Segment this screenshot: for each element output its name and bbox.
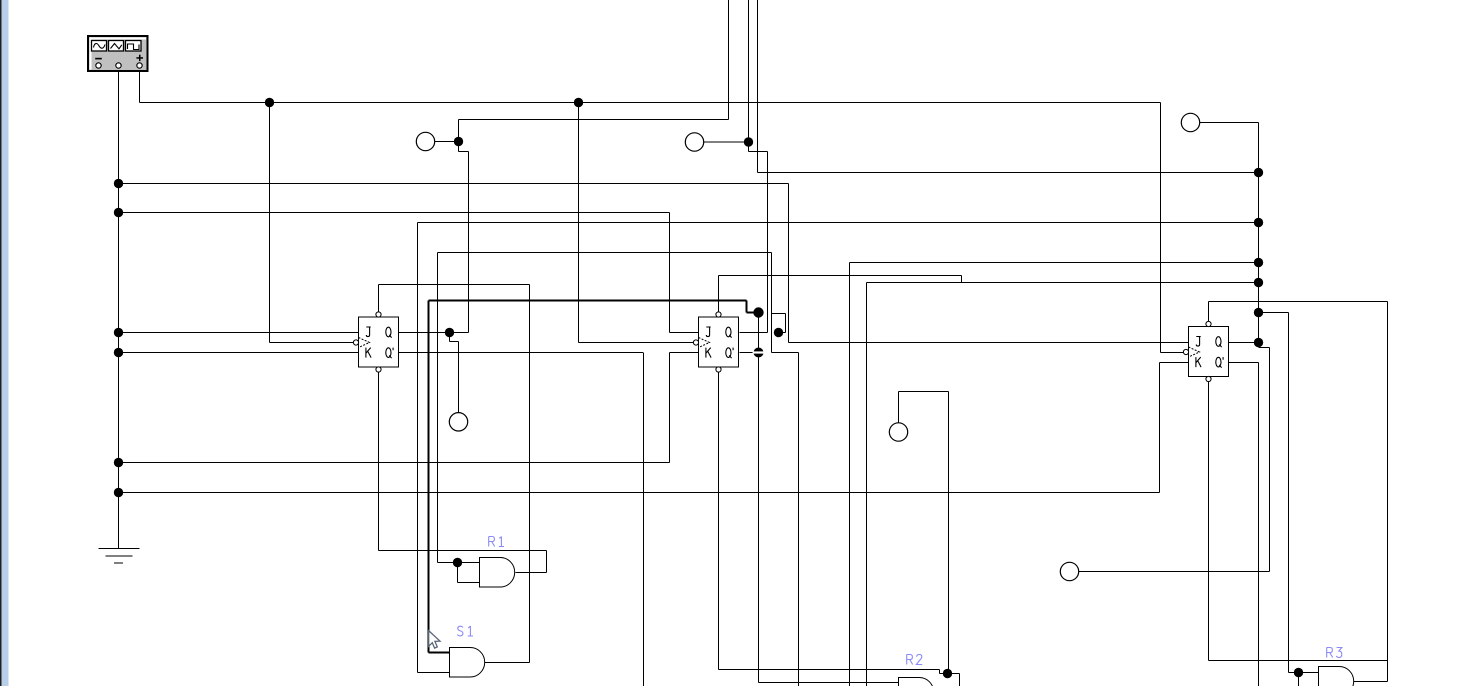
wire FF1 Qbar output — [399, 352, 644, 354]
wire FF3 preset horizontal — [1209, 301, 1388, 303]
wire FF3 clear drop — [1208, 382, 1210, 661]
wire FF2 Q node stub — [779, 332, 786, 334]
wire riser to FF2 K — [669, 353, 671, 463]
wire R1 input tie branch — [457, 563, 459, 583]
wire clock drop to FF3 — [1160, 103, 1162, 353]
wire R2 output wrap drop — [959, 674, 961, 686]
wire FF2 Q output — [740, 332, 768, 334]
triangle button — [109, 41, 124, 52]
wire FF2 clear drop — [718, 372, 720, 670]
wire R1 output — [516, 572, 547, 574]
wire net N222 long horizontal — [418, 222, 1259, 224]
wire net N183 drop to FF3 J — [788, 184, 790, 343]
wire selected vertical to S1 input1 — [428, 301, 430, 653]
label R2 — [907, 655, 923, 665]
junction FF1 Q — [445, 328, 454, 337]
wire FF2 preset riser — [718, 276, 720, 313]
AND gate S1 (S1) — [450, 648, 485, 678]
wire net N492 from rail — [119, 492, 1160, 494]
label R1 — [489, 537, 504, 547]
wire to top edge C — [757, 0, 759, 173]
junction spine y222 — [1254, 218, 1263, 227]
junction R2 output node — [943, 669, 952, 678]
wire R1 input2 — [458, 582, 480, 584]
label R3 — [1327, 648, 1342, 658]
sine icon — [94, 44, 106, 49]
wire probe P1 link — [435, 141, 459, 143]
wire down to FF1 Q line — [468, 152, 470, 333]
wire jog below node X1 — [458, 142, 460, 152]
junction spine y312 — [1254, 308, 1263, 317]
wire spine stub y312 — [1259, 312, 1289, 314]
wire R3 input1 — [1289, 672, 1319, 674]
wire net N252 horizontal — [438, 252, 772, 254]
wire clock drop to FF1 — [269, 103, 271, 343]
junction rail y462 — [114, 458, 123, 467]
wire net N462 from rail — [119, 462, 670, 464]
wire R1 wrap top — [379, 550, 547, 552]
junction rail FF1 K — [114, 348, 123, 357]
wire net N212 from rail — [119, 212, 670, 214]
wire leg y352 right of FF2 — [772, 352, 799, 354]
junction rail y183 — [114, 179, 123, 188]
function generator XFG1 — [88, 36, 148, 71]
label S1 — [457, 626, 473, 636]
wire FF3 K input — [1160, 362, 1189, 364]
wire FF3 clock input — [1161, 352, 1184, 354]
wire FF3 J input — [789, 342, 1189, 344]
probe terminal P3 — [449, 413, 467, 431]
wire probe node to top edge — [459, 119, 729, 121]
wire FF3 preset riser — [1208, 302, 1210, 322]
wire net N252 drop to R1 input1 — [437, 253, 439, 563]
wire FF3 Q jog — [1259, 347, 1270, 349]
wire jog below node X2 — [748, 142, 750, 152]
JK flip-flop U3 — [1183, 321, 1228, 381]
sine button — [92, 41, 107, 52]
wire FF3 Q output — [1229, 342, 1259, 344]
junction FF2 Qbar (with gap) — [754, 348, 764, 358]
wire FF2 preset horizontal — [719, 275, 962, 277]
wire FF2 clock input — [579, 342, 694, 344]
wire to top edge B — [748, 0, 750, 142]
mouse cursor — [429, 631, 440, 649]
wire FF1 preset horizontal — [379, 284, 530, 286]
wire FF2 Qbar net drop to R2 input1 — [758, 313, 760, 683]
wire FG plus terminal drop — [139, 71, 141, 103]
wire net N222 drop to S1 input2 — [417, 223, 419, 673]
wire FF2 preset jog — [961, 276, 963, 283]
wire S1 input1 selected — [429, 652, 450, 654]
wire R3 input tie branch — [1298, 673, 1300, 686]
wire S1 output riser to FF1 preset — [529, 285, 531, 663]
FG plus terminal — [137, 63, 142, 68]
JK flip-flop U1 — [353, 312, 398, 372]
wire probe P6 link — [1079, 571, 1270, 573]
wire net N282 horizontal to spine — [867, 282, 1259, 284]
wire FF1 Qbar drop to bottom edge — [643, 353, 645, 686]
junction spine y282 — [1254, 278, 1263, 287]
junction spine y262 — [1254, 258, 1263, 267]
wire stub above FF2 Q node — [785, 314, 787, 333]
wire clock net horizontal y102 — [140, 102, 1161, 104]
AND gate R3 (R3) — [1319, 667, 1354, 686]
left panel edge — [0, 0, 2, 686]
wire FF1 clear drop — [378, 372, 380, 551]
junction rail y492 — [114, 488, 123, 497]
wire FF1 preset riser — [378, 285, 380, 313]
wire FF2 K input — [670, 352, 699, 354]
wire net N262 drop to bottom edge — [849, 263, 851, 686]
wire probe node riser — [458, 120, 460, 142]
junction FF3 Q — [1254, 338, 1263, 347]
wire FF2 Qbar stub — [740, 352, 754, 354]
junction rail FF1 J — [114, 328, 123, 337]
wire R1 input1 — [438, 562, 480, 564]
wire selected horizontal y300 — [429, 300, 747, 302]
wire R2 output step — [939, 670, 941, 674]
wire spine branch drop to R3 input1 — [1288, 313, 1290, 673]
wire riser to FF2 J — [669, 213, 671, 333]
triangle icon — [111, 44, 122, 49]
FG common terminal — [116, 63, 121, 68]
wire S1 input2 — [418, 672, 450, 674]
probe terminal P4 — [1181, 113, 1199, 131]
junction R1 inputs — [453, 558, 462, 567]
JK flip-flop U2 — [693, 312, 738, 372]
junction FF2 Q — [774, 328, 783, 337]
probe terminal P1 — [416, 132, 434, 150]
wire selected jog to junction — [747, 312, 759, 314]
wire R2 output node link — [940, 673, 960, 675]
wire FF2 J input — [670, 332, 699, 334]
wire net N252 drop right of FF2 — [771, 253, 773, 353]
ground symbol — [99, 549, 140, 564]
plus label — [136, 55, 143, 61]
probe terminal P6 — [1060, 562, 1078, 580]
wire down to R2 output node — [948, 392, 950, 674]
wire net N282 drop to bottom edge — [866, 283, 868, 686]
FG minus terminal — [96, 63, 101, 68]
wire jog X1 horizontal — [459, 151, 469, 153]
wire to top edge A — [728, 0, 730, 120]
wire net N262 horizontal — [850, 262, 1259, 264]
wire down to FF2 Q line — [767, 152, 769, 333]
AND gate R1 (R1) — [480, 558, 515, 588]
wire selected stub drop — [746, 301, 748, 313]
junction spine y172 — [1254, 168, 1263, 177]
wire jog X2 horizontal — [749, 151, 768, 153]
junction clock/FF1 — [265, 98, 274, 107]
wire net N183 from rail — [119, 183, 789, 185]
wire R3 output — [1354, 681, 1388, 683]
wire FF1 K input — [119, 352, 359, 354]
wire probe P5 riser — [898, 392, 900, 423]
wire drop to bottom edge D — [798, 353, 800, 686]
square button — [126, 41, 142, 52]
junction selected wire (bold) — [753, 307, 763, 317]
wire R1 output wrap drop — [546, 551, 548, 573]
wire clock drop to FF2 — [578, 103, 580, 343]
probe terminal P2 — [685, 133, 703, 151]
junction rail y212 — [114, 208, 123, 217]
wire net y172 to spine — [758, 172, 1259, 174]
wire probe P4 link — [1200, 122, 1259, 124]
junction probe P1 node — [454, 137, 463, 146]
junction clock/FF2 — [574, 98, 583, 107]
wire jog to probe P3 — [450, 341, 459, 343]
wire R3 wrap top — [1209, 660, 1388, 662]
junction R3 inputs — [1294, 668, 1303, 677]
wire down to probe P3 — [458, 342, 460, 413]
wire FF3 Qbar output — [1229, 362, 1259, 364]
probe terminal P5 — [889, 423, 907, 441]
square icon — [128, 44, 140, 50]
AND gate R2 (R2) — [899, 678, 934, 686]
wire FF3 preset to R3 output wrap — [1387, 302, 1389, 682]
wire jog above FF2 Q node — [772, 313, 786, 315]
wire FF3 Q drop to probe P6 line — [1269, 348, 1271, 572]
wire FF1 J input — [119, 332, 359, 334]
wire FF2 clear horizontal — [719, 669, 940, 671]
wire S1 output — [485, 662, 530, 664]
wire FF1 Q output — [399, 332, 469, 334]
wire FF3 Qbar drop to bottom edge — [1258, 363, 1260, 686]
junction probe P2 node — [744, 137, 753, 146]
wire FG center rail down to ground — [118, 71, 120, 549]
wire drop from FF1 Q junction — [449, 333, 451, 342]
wire probe P5 top link — [899, 391, 949, 393]
wire riser to FF3 K — [1159, 363, 1161, 493]
wire bus spine x1259 — [1258, 123, 1260, 343]
wire probe P2 link — [704, 141, 749, 143]
wire R2 input1 — [759, 682, 899, 684]
wire FF1 clock input — [270, 342, 354, 344]
minus label — [95, 58, 102, 60]
